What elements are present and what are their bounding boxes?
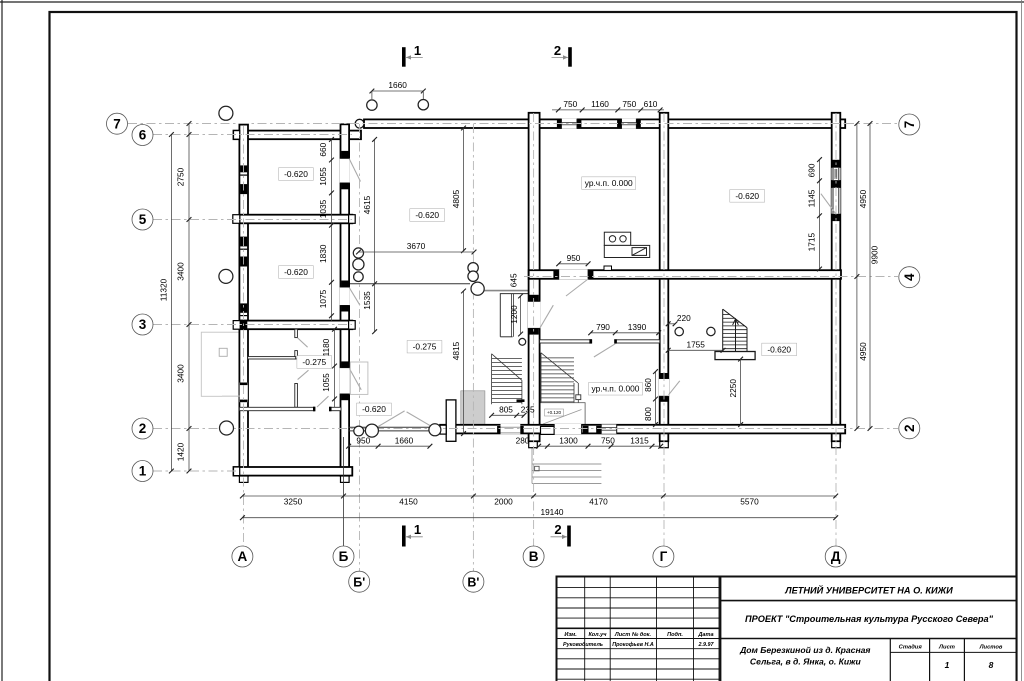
svg-text:5570: 5570 xyxy=(740,497,759,507)
west door leaf swing xyxy=(222,395,240,397)
svg-text:Г: Г xyxy=(660,549,668,564)
svg-text:4615: 4615 xyxy=(362,195,372,214)
svg-text:750: 750 xyxy=(563,99,577,109)
small post near V xyxy=(519,338,526,345)
window W2 on west wall xyxy=(240,237,247,247)
axis circle 7 left xyxy=(107,113,128,134)
dim right column 4950/4950 xyxy=(856,124,858,429)
axis circle A xyxy=(232,546,253,567)
dim kitchen windows 750 1160 750 610 xyxy=(552,109,664,111)
dim bottom row 1 xyxy=(242,495,835,497)
wall: west outer wall on axis A xyxy=(239,125,248,476)
axis line A vertical xyxy=(243,126,245,546)
dim kitchen door 950 xyxy=(559,263,588,265)
svg-text:280: 280 xyxy=(516,435,530,445)
svg-text:Кол.уч: Кол.уч xyxy=(588,632,607,638)
svg-text:1: 1 xyxy=(139,464,147,479)
axis circle 6 left xyxy=(132,125,153,146)
level label -0.275 SW room xyxy=(297,356,332,369)
axis line B (solid) vertical xyxy=(343,437,345,546)
wall: north wall along axis 7 (gallery+kitchen+east room) xyxy=(364,119,845,128)
B wall east posts xyxy=(353,248,363,258)
svg-text:Лист: Лист xyxy=(938,645,955,651)
axis line 6 xyxy=(153,134,352,136)
west side post circles xyxy=(219,106,233,120)
axis circle 2 left xyxy=(132,418,153,439)
stair S3 arrow xyxy=(733,319,739,325)
south wall pier right of V xyxy=(541,426,555,434)
svg-text:-0.620: -0.620 xyxy=(284,169,308,179)
svg-text:11320: 11320 xyxy=(159,278,169,301)
svg-text:А: А xyxy=(238,549,248,564)
stair S2 newel box xyxy=(576,395,581,400)
svg-text:1390: 1390 xyxy=(628,322,647,332)
dim 1755 xyxy=(668,349,723,351)
section mark 1 top xyxy=(402,47,406,66)
window W3 on west wall xyxy=(240,303,247,312)
kitchen window 2 north xyxy=(617,120,621,127)
svg-text:-0.275: -0.275 xyxy=(413,342,437,352)
door D1 in B wall xyxy=(340,158,350,183)
dim gallery 950/1660 xyxy=(349,445,430,447)
wall: north wall of west block along axis 6 xyxy=(234,131,362,140)
svg-text:645: 645 xyxy=(508,273,518,287)
vestibule outline xyxy=(500,294,531,337)
level label -0.620 SE room xyxy=(762,343,797,356)
level label ur.ch.p. 0.000 S hall xyxy=(589,383,643,396)
level label -0.620 room NW xyxy=(279,168,314,181)
axis circle V xyxy=(523,546,544,567)
svg-text:2000: 2000 xyxy=(494,497,513,507)
svg-text:2: 2 xyxy=(554,522,561,537)
door on west wall (opening) xyxy=(240,383,248,403)
axis line 5 xyxy=(153,219,352,221)
svg-text:950: 950 xyxy=(356,435,370,445)
svg-text:2: 2 xyxy=(554,43,561,58)
axis circle 2 right xyxy=(899,418,920,439)
svg-text:3670: 3670 xyxy=(407,241,426,251)
svg-text:790: 790 xyxy=(596,322,610,332)
dim top 1660 xyxy=(372,90,423,92)
svg-text:2250: 2250 xyxy=(728,379,738,398)
svg-text:8: 8 xyxy=(989,660,994,670)
axis circle 4 right xyxy=(899,267,920,288)
stair S3 east room xyxy=(723,309,747,359)
dim 2250 xyxy=(740,359,742,425)
section mark 1 bottom xyxy=(402,526,406,547)
gallery edge line y284 xyxy=(349,283,470,285)
axis circle V-prime xyxy=(463,571,484,592)
svg-text:В': В' xyxy=(467,575,479,589)
svg-text:Б': Б' xyxy=(353,575,365,589)
svg-text:860: 860 xyxy=(643,378,653,392)
axis line V-prime vertical xyxy=(472,124,474,571)
title block xyxy=(557,577,1017,681)
axis circle 7 right xyxy=(899,114,920,135)
svg-text:Руководитель: Руководитель xyxy=(563,642,603,648)
dim hall 1535 xyxy=(374,284,376,332)
axis line B-prime vertical xyxy=(359,124,361,571)
stair S1 bottom black mark xyxy=(517,399,525,402)
wall: east outer wall on axis D xyxy=(832,113,841,442)
svg-text:Листов: Листов xyxy=(979,645,1003,651)
svg-text:5: 5 xyxy=(139,212,147,227)
svg-text:1: 1 xyxy=(414,43,421,58)
dim hall 4615 xyxy=(374,139,376,283)
svg-text:-0.620: -0.620 xyxy=(284,267,308,277)
svg-text:2: 2 xyxy=(902,425,917,433)
log end circle at gallery west end xyxy=(355,119,364,128)
V-prime porch post wall xyxy=(446,400,456,441)
wall: interior wall along axis 5 xyxy=(239,215,352,224)
kitchen stove xyxy=(604,232,649,257)
svg-text:Дом Березкиной из д. Красная: Дом Березкиной из д. Красная xyxy=(739,645,870,655)
stair S2 landing xyxy=(540,403,586,425)
partition door swing (790) xyxy=(594,344,615,357)
landing ramp diagonal xyxy=(543,410,582,425)
svg-text:1315: 1315 xyxy=(630,435,649,445)
exterior steps xyxy=(532,437,601,484)
vestibule inner wall double line xyxy=(511,294,513,337)
dim G wall 860/800 xyxy=(655,372,657,425)
axis circle 1 left xyxy=(132,461,153,482)
svg-text:Лист № док.: Лист № док. xyxy=(614,632,652,638)
door in G wall (bottom rooms) xyxy=(659,379,669,397)
partition wall hall south (790/1390) xyxy=(540,340,592,343)
svg-text:1075: 1075 xyxy=(318,289,328,308)
north porch posts xyxy=(367,100,377,110)
level label -0.620 NE room xyxy=(730,190,765,203)
axis line D vertical xyxy=(835,113,837,546)
dim left column 2750/3400/3400/1420 xyxy=(188,124,190,472)
axis circle B xyxy=(333,546,354,567)
svg-text:1300: 1300 xyxy=(559,435,578,445)
svg-text:1035: 1035 xyxy=(318,199,328,218)
svg-text:ПРОЕКТ "Строительная культура: ПРОЕКТ "Строительная культура Русского С… xyxy=(745,614,994,624)
axis line 7 right stub xyxy=(845,123,898,125)
door in V wall (vestibule to hall) xyxy=(528,301,541,328)
svg-text:Прокофьев Н.А: Прокофьев Н.А xyxy=(612,641,654,648)
svg-text:-0.620: -0.620 xyxy=(735,191,759,201)
svg-text:610: 610 xyxy=(644,99,658,109)
svg-text:В: В xyxy=(529,549,539,564)
svg-text:1660: 1660 xyxy=(395,435,414,445)
wall: interior wall along axis 4 xyxy=(529,270,841,279)
svg-text:750: 750 xyxy=(601,435,615,445)
corner log ends NW xyxy=(234,131,240,140)
exterior steps small square xyxy=(535,466,540,471)
svg-text:1180: 1180 xyxy=(321,338,331,356)
level label -0.620 room W xyxy=(279,266,314,279)
east window open leaf swing xyxy=(821,194,836,215)
axis circle 3 left xyxy=(132,314,153,335)
dim hall 4805 xyxy=(463,128,465,251)
svg-text:1055: 1055 xyxy=(318,167,328,186)
V-prime posts xyxy=(468,263,478,273)
svg-text:Стадия: Стадия xyxy=(899,645,923,651)
svg-text:-0.620: -0.620 xyxy=(362,404,386,414)
svg-text:Д: Д xyxy=(831,549,841,564)
svg-text:1830: 1830 xyxy=(318,244,328,263)
svg-text:1535: 1535 xyxy=(362,291,372,310)
partition horizontal T xyxy=(248,357,296,359)
svg-text:4805: 4805 xyxy=(451,189,461,208)
posts in SE room xyxy=(675,327,683,335)
wall: south outer wall along axis 2 xyxy=(440,425,845,434)
axis line 1 xyxy=(153,470,238,472)
svg-text:Изм.: Изм. xyxy=(564,632,577,638)
gallery edge line y290 xyxy=(478,290,531,292)
svg-text:1200: 1200 xyxy=(509,305,519,324)
left exterior porch rectangle xyxy=(201,332,240,396)
partition door swings SW block xyxy=(298,338,308,347)
dim right column 9900 xyxy=(869,124,871,429)
svg-text:4950: 4950 xyxy=(858,189,868,208)
axis5 wall log ends xyxy=(233,215,240,224)
dim hall 4815 xyxy=(463,291,465,434)
axis line 7 xyxy=(128,123,852,125)
wall: interior wall along axis 3 xyxy=(239,321,352,330)
svg-text:800: 800 xyxy=(643,407,653,421)
door D3 in B wall xyxy=(340,368,350,394)
svg-text:805: 805 xyxy=(499,404,513,414)
svg-text:220: 220 xyxy=(677,313,691,323)
svg-text:235: 235 xyxy=(521,404,535,414)
kitchen door in axis4 wall xyxy=(559,269,588,279)
page outer edge lines xyxy=(1,0,3,681)
dim 3670 xyxy=(359,251,475,253)
door D2 in B wall xyxy=(340,287,350,306)
axis line G vertical xyxy=(663,113,665,546)
wall: wall on axis G xyxy=(660,113,669,442)
svg-text:4815: 4815 xyxy=(451,341,461,360)
svg-text:750: 750 xyxy=(622,99,636,109)
level label -0.275 hall S xyxy=(407,340,442,353)
wall: south wall of west block along axis 1 xyxy=(234,467,353,476)
gray landing left of S1 xyxy=(461,391,485,425)
axis circle D xyxy=(825,546,846,567)
section mark 2 top xyxy=(568,47,572,66)
svg-text:1160: 1160 xyxy=(591,99,609,109)
svg-text:2.9.97: 2.9.97 xyxy=(698,642,715,648)
title block right part xyxy=(720,601,1016,681)
svg-text:4170: 4170 xyxy=(589,497,608,507)
svg-text:-0.620: -0.620 xyxy=(415,210,439,220)
dim 805/235 xyxy=(492,414,524,416)
dim bottom row 2 19140 xyxy=(242,517,835,519)
kitchen window 1 north xyxy=(557,120,562,127)
stair S2 hall xyxy=(541,353,578,403)
svg-text:660: 660 xyxy=(318,142,328,156)
svg-text:7: 7 xyxy=(902,121,917,129)
svg-text:4: 4 xyxy=(902,273,917,281)
partition walls in SW block: vertical upper xyxy=(295,329,298,337)
level label +0.120 xyxy=(545,409,564,416)
axis line V vertical xyxy=(533,113,535,546)
dim partitions 790/1390 xyxy=(591,332,659,334)
svg-text:Дата: Дата xyxy=(697,632,713,638)
partition wall y408 xyxy=(239,407,314,410)
level label -0.620 gallery xyxy=(357,403,392,416)
wall: central wall on axis B xyxy=(341,124,350,476)
svg-text:4150: 4150 xyxy=(399,497,418,507)
windows on east wall D xyxy=(832,160,839,168)
dim east room 690/1145/1715 xyxy=(819,160,821,269)
dim SW block 1180/1055 xyxy=(334,329,336,407)
level label -0.620 hall xyxy=(410,209,445,222)
svg-text:ур.ч.п. 0.000: ур.ч.п. 0.000 xyxy=(585,178,633,188)
svg-text:ЛЕТНИЙ УНИВЕРСИТЕТ НА О. КИЖИ: ЛЕТНИЙ УНИВЕРСИТЕТ НА О. КИЖИ xyxy=(784,585,953,596)
svg-text:Б: Б xyxy=(339,549,349,564)
svg-text:Подп.: Подп. xyxy=(667,632,683,638)
corner log ends SW xyxy=(234,467,240,476)
gallery south posts xyxy=(354,426,364,436)
entry pad right of door D3 xyxy=(350,362,368,394)
axis circle G xyxy=(653,546,674,567)
svg-text:1: 1 xyxy=(414,522,421,537)
svg-text:3: 3 xyxy=(139,317,147,332)
G wall log end bottom xyxy=(660,442,669,448)
D wall log end bottom xyxy=(832,442,841,448)
svg-text:ур.ч.п. 0.000: ур.ч.п. 0.000 xyxy=(592,384,640,394)
stair S3 platform xyxy=(715,352,755,360)
axis circle 5 left xyxy=(132,209,153,230)
svg-text:1: 1 xyxy=(945,660,950,670)
svg-text:9900: 9900 xyxy=(870,245,880,264)
svg-text:1755: 1755 xyxy=(686,339,705,349)
axis3 wall log ends xyxy=(233,321,240,330)
svg-text:3250: 3250 xyxy=(284,497,303,507)
svg-text:3400: 3400 xyxy=(175,262,185,281)
svg-text:-0.620: -0.620 xyxy=(767,344,791,354)
svg-text:1420: 1420 xyxy=(175,442,185,461)
small notch on axis4 wall xyxy=(604,266,612,270)
south window near G xyxy=(601,424,617,433)
axis line 4 xyxy=(524,276,898,278)
axis line 3 xyxy=(153,324,352,326)
svg-text:+0.120: +0.120 xyxy=(547,410,562,415)
wall: wall on axis V xyxy=(529,113,540,442)
svg-text:1145: 1145 xyxy=(806,189,816,207)
gallery door swings xyxy=(377,411,404,427)
dim 220 xyxy=(668,323,675,325)
gallery balustrade south xyxy=(349,426,447,428)
svg-text:2750: 2750 xyxy=(175,167,185,186)
small square in left porch xyxy=(219,348,227,356)
svg-text:690: 690 xyxy=(806,163,816,177)
axis circle B-prime xyxy=(349,571,370,592)
svg-text:2: 2 xyxy=(139,421,147,436)
svg-text:4950: 4950 xyxy=(858,342,868,361)
dim south 280/1300/750/1315 xyxy=(539,445,661,447)
svg-text:3400: 3400 xyxy=(175,364,185,383)
svg-text:950: 950 xyxy=(567,253,581,263)
B wall log end bottom xyxy=(341,476,350,482)
svg-text:-0.275: -0.275 xyxy=(302,357,326,367)
dim B-wall room heights 660/1055/1035/1830/1075 xyxy=(331,139,333,320)
svg-text:1055: 1055 xyxy=(321,373,331,392)
svg-text:1660: 1660 xyxy=(388,80,407,90)
V wall log end bottom xyxy=(529,442,538,448)
south entrance opening below vestibule stair xyxy=(501,424,521,434)
section mark 2 bottom xyxy=(567,526,571,547)
svg-text:6: 6 xyxy=(139,128,147,143)
window W1 on west wall xyxy=(240,165,247,172)
dim left column outer 11320 xyxy=(170,135,172,472)
axis line 2 xyxy=(153,428,898,430)
svg-text:7: 7 xyxy=(113,116,121,131)
svg-text:1715: 1715 xyxy=(806,232,816,251)
svg-text:19140: 19140 xyxy=(540,507,563,517)
level label ur.ch.p. 0.000 kitchen xyxy=(582,177,636,190)
dim 1200 xyxy=(520,296,522,334)
svg-text:Сельга, в д. Янка, о. Кижи: Сельга, в д. Янка, о. Кижи xyxy=(750,657,862,667)
stair S1 vestibule xyxy=(492,354,522,405)
partition vertical lower xyxy=(295,384,298,408)
south entrance door xyxy=(554,424,581,434)
